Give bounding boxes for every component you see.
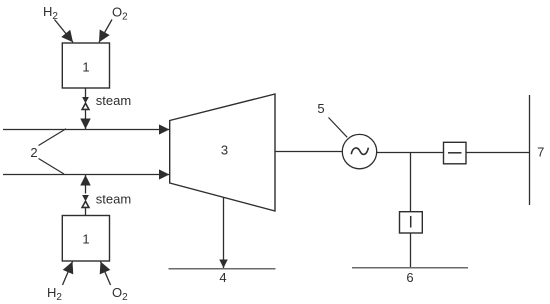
wire duct top line with arrow into turbine bbox=[3, 129, 169, 131]
load box bar symbol bbox=[410, 216, 412, 228]
busbar 7 bbox=[529, 95, 531, 205]
svg-text:1: 1 bbox=[82, 60, 89, 75]
leader line label 2 to duct top bbox=[39, 129, 67, 146]
svg-text:4: 4 bbox=[219, 270, 226, 285]
arrow H2 into combustor 1 (bottom) bbox=[63, 262, 73, 286]
svg-text:6: 6 bbox=[406, 270, 413, 285]
arrow steam into duct (top) bbox=[85, 110, 87, 129]
combustor box 1 (bottom) bbox=[62, 216, 109, 262]
arrow O2 into combustor 1 (top) bbox=[99, 20, 112, 43]
generator 5 circle bbox=[342, 134, 376, 168]
svg-text:H2: H2 bbox=[43, 4, 58, 22]
arrow O2 into combustor 1 (bottom) bbox=[101, 262, 111, 286]
busbar 6 bbox=[352, 267, 468, 269]
svg-text:1: 1 bbox=[82, 232, 89, 247]
generator tilde symbol bbox=[351, 148, 368, 155]
svg-text:5: 5 bbox=[317, 101, 324, 116]
svg-text:H2: H2 bbox=[47, 285, 62, 303]
svg-text:O2: O2 bbox=[112, 5, 128, 23]
converter box (DC symbol) bbox=[444, 142, 467, 164]
wire turbine to generator bbox=[275, 151, 342, 153]
svg-text:steam: steam bbox=[96, 192, 131, 207]
converter dash symbol bbox=[448, 152, 462, 154]
turbine 3 bbox=[170, 94, 275, 211]
valve (bottom steam valve) bbox=[82, 195, 89, 207]
leader line label 2 to duct bottom bbox=[39, 159, 65, 175]
valve (top steam valve) bbox=[82, 97, 89, 109]
wire valve to combustor 1 (bottom) bbox=[85, 208, 87, 216]
busbar 4 (condenser line) bbox=[169, 268, 276, 270]
arrow H2 into combustor 1 (top) bbox=[55, 20, 74, 43]
wire combustor 1 to valve (top) bbox=[85, 88, 87, 97]
leader line label 5 to generator bbox=[329, 118, 348, 138]
wire duct bottom line with arrow into turbine bbox=[3, 174, 169, 176]
wire turbine exhaust down with arrow bbox=[223, 198, 225, 269]
svg-text:7: 7 bbox=[537, 145, 544, 160]
wire converter box to busbar 7 bbox=[466, 152, 530, 154]
svg-text:3: 3 bbox=[221, 143, 228, 158]
svg-text:steam: steam bbox=[96, 93, 131, 108]
wire load box to busbar 6 bbox=[410, 233, 412, 268]
wire junction down to load box 6 bbox=[410, 153, 412, 213]
svg-text:2: 2 bbox=[30, 145, 37, 160]
combustor box 1 (top) bbox=[62, 43, 109, 88]
wire generator to converter box bbox=[377, 152, 443, 154]
load box (vertical bar symbol) bbox=[400, 212, 423, 233]
arrow steam into duct (bottom, pointing up) bbox=[85, 175, 87, 194]
svg-text:O2: O2 bbox=[112, 285, 128, 303]
